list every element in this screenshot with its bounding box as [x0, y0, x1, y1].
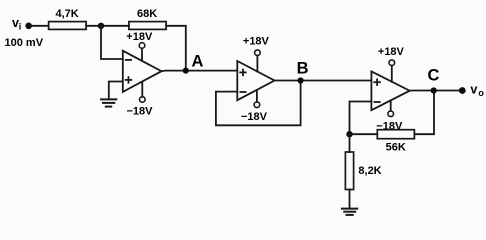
svg-text:−18V: −18V [241, 111, 268, 123]
wire junction down to inverting input U1 [101, 26, 123, 59]
svg-text:o: o [478, 88, 484, 98]
node Vo output terminal [459, 87, 466, 94]
svg-text:−18V: −18V [127, 106, 154, 118]
U3 plus input mark [374, 79, 380, 85]
label +18V of U3 [378, 46, 405, 58]
wire R 68K to node A [166, 26, 186, 71]
wire U3 output to Vo [410, 90, 462, 92]
svg-text:8,2K: 8,2K [358, 165, 381, 177]
svg-text:v: v [470, 82, 477, 96]
resistor 4,7K [49, 22, 87, 30]
wire R 56K up to node C [414, 91, 434, 135]
wire R 4,7K to junction [86, 25, 101, 27]
U2 plus input mark [240, 70, 246, 76]
svg-text:A: A [192, 53, 204, 71]
U1 minus input mark [126, 59, 131, 61]
label -18V of U2 [241, 111, 268, 123]
junction input node [98, 23, 104, 29]
wire U2 output to U3 plus input [275, 80, 372, 82]
label v_i [12, 16, 21, 32]
svg-text:+18V: +18V [378, 46, 405, 58]
U1 -18V supply pin [140, 82, 146, 102]
wire junction down to R 8,2K [349, 134, 351, 152]
label 4,7K [56, 8, 79, 20]
U3 +18V supply pin [389, 60, 395, 82]
wire U3 minus input to feedback junction [350, 102, 372, 135]
label +18V of U2 [243, 36, 270, 48]
wire Vi to R 4,7K [30, 25, 49, 27]
wire U1 plus input to ground [109, 82, 123, 99]
svg-text:B: B [297, 60, 309, 78]
U2 minus input mark [240, 91, 245, 93]
label 68K [137, 8, 157, 20]
svg-text:i: i [19, 22, 22, 32]
U2 +18V supply pin [255, 50, 261, 72]
svg-text:+18V: +18V [243, 36, 270, 48]
resistor 56K [377, 130, 414, 139]
U1 +18V supply pin [139, 43, 145, 61]
svg-text:C: C [428, 67, 440, 85]
label 56K [386, 142, 406, 154]
svg-text:56K: 56K [386, 142, 406, 154]
node Vi input terminal [25, 23, 32, 30]
node C [431, 87, 437, 93]
label 100 mV [5, 37, 44, 49]
op-amp U2 [237, 61, 274, 100]
junction feedback node [346, 131, 352, 137]
label +18V of U1 [126, 31, 153, 43]
wire junction to R 68K [101, 25, 129, 27]
ground U1 [101, 99, 116, 106]
wire R 8,2K to ground [349, 190, 351, 209]
U3 -18V supply pin [388, 101, 394, 117]
label -18V of U3 [376, 120, 403, 132]
U1 plus input mark [126, 77, 132, 83]
label -18V of U1 [127, 106, 154, 118]
ground bottom [342, 209, 357, 215]
node A [183, 68, 189, 74]
op-amp U3 [371, 71, 409, 110]
label v_o [470, 82, 484, 97]
svg-text:68K: 68K [137, 8, 157, 20]
label 8,2K [358, 165, 381, 177]
label C [428, 67, 440, 85]
op-amp U1 [123, 51, 162, 92]
svg-text:4,7K: 4,7K [56, 8, 79, 20]
U3 minus input mark [375, 101, 380, 103]
resistor 68K [129, 22, 166, 30]
svg-text:−18V: −18V [376, 120, 403, 132]
wire U2 feedback loop output to minus input [216, 81, 301, 126]
U2 -18V supply pin [254, 90, 260, 108]
resistor 8,2K [345, 152, 353, 190]
wire junction to R 56K [350, 133, 378, 135]
node B [298, 77, 304, 83]
label A [192, 53, 204, 71]
svg-text:+18V: +18V [126, 31, 153, 43]
label B [297, 60, 309, 78]
svg-text:100 mV: 100 mV [5, 37, 44, 49]
wire U1 output to U2 plus input [162, 70, 238, 73]
